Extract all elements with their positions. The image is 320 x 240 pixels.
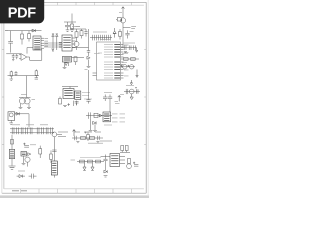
- ground: [12, 60, 14, 61]
- capacitor C29: [51, 127, 53, 134]
- diode D20: [52, 49, 54, 51]
- capacitor C34: [74, 136, 76, 140]
- wire: [70, 28, 86, 30]
- diode D11: [91, 163, 94, 170]
- transistor Q5: [129, 89, 134, 94]
- resistor R24: [121, 146, 124, 153]
- pins U3: [72, 38, 76, 47]
- capacitor C15: [129, 45, 131, 50]
- diode D4: [87, 56, 90, 66]
- border grid ticks bottom: [21, 189, 132, 193]
- page bottom edge (gray strip): [0, 195, 149, 198]
- wire: [121, 58, 139, 60]
- resistor R15: [94, 113, 98, 117]
- label: [71, 159, 76, 161]
- resistor R23: [96, 160, 101, 163]
- label below U8: [104, 124, 112, 126]
- transistor Q8: [52, 132, 62, 137]
- resistor R25: [125, 146, 128, 153]
- capacitor C12: [35, 78, 38, 79]
- label: [93, 31, 107, 33]
- capacitor C30 electrolytic: [23, 143, 29, 147]
- net labels: [112, 114, 125, 122]
- transistor Q9: [127, 164, 132, 169]
- diode D6: [93, 121, 97, 124]
- sheet outer border: [2, 2, 146, 193]
- border grid ticks left: [2, 50, 4, 145]
- capacitor C23: [21, 127, 23, 134]
- diode D9: [17, 175, 25, 178]
- label: [104, 92, 112, 94]
- capacitor C14: [124, 45, 126, 50]
- IC U1 microcontroller: [97, 42, 121, 80]
- label: [100, 140, 112, 142]
- gate U4: [19, 54, 30, 61]
- label: [85, 69, 88, 71]
- capacitor C43: [87, 48, 90, 56]
- capacitor C27: [42, 127, 44, 134]
- node VCC3 arrow: [73, 130, 76, 136]
- pins U10: [120, 157, 126, 164]
- wire: [26, 76, 28, 98]
- capacitor C9: [84, 29, 87, 37]
- label: [122, 62, 127, 64]
- capacitor C37 electrolytic: [133, 162, 138, 166]
- resistor R21: [80, 160, 85, 163]
- capacitor C13: [67, 103, 70, 106]
- wire: [123, 27, 131, 29]
- capacitor C21: [12, 127, 14, 134]
- pin boxes U3 left: [59, 43, 62, 47]
- diode D15: [113, 28, 116, 38]
- label: [94, 53, 100, 55]
- capacitor C2: [125, 30, 129, 38]
- wire: [65, 58, 85, 67]
- label: [130, 31, 134, 33]
- wire: [27, 48, 42, 61]
- diode D18: [52, 34, 55, 52]
- wire: [10, 31, 12, 42]
- ground: [93, 130, 97, 131]
- diode D19: [56, 34, 59, 50]
- transformer T1: [19, 97, 31, 107]
- diode D16: [136, 48, 138, 53]
- capacitor C28: [46, 127, 48, 134]
- capacitor C45: [86, 100, 90, 104]
- label: [76, 25, 81, 27]
- label: [124, 42, 136, 44]
- IC U5: [63, 56, 72, 62]
- resistor R1: [71, 22, 74, 30]
- wire: [53, 137, 55, 161]
- pins U1 right: [121, 45, 124, 79]
- label: [120, 94, 124, 96]
- wire: [11, 159, 13, 166]
- wire: [23, 156, 25, 163]
- IC U8: [103, 112, 111, 122]
- ground: [10, 79, 13, 80]
- label: [12, 124, 48, 126]
- resistor R7: [80, 29, 83, 39]
- capacitor C41: [105, 35, 107, 41]
- border grid ticks top: [21, 2, 132, 5]
- capacitor C24: [26, 127, 28, 134]
- capacitor C39: [97, 35, 99, 41]
- pin labels U1 bank1: [104, 45, 113, 58]
- capacitor C5: [15, 54, 18, 59]
- ground: [27, 107, 31, 108]
- wire mid row: [86, 115, 112, 117]
- resistor R11: [59, 97, 62, 105]
- resistor R16: [11, 140, 14, 145]
- pin labels U1 bank2: [104, 62, 113, 70]
- ground: [104, 176, 108, 177]
- resistor R10: [35, 69, 37, 77]
- wire: [120, 151, 130, 153]
- wire: [122, 7, 124, 18]
- wire: [6, 53, 21, 55]
- capacitor C19: [108, 95, 112, 113]
- pin labels U1 bank3: [104, 73, 113, 78]
- capacitor C36: [103, 155, 107, 169]
- relay K1: [8, 112, 15, 121]
- capacitor C16: [134, 45, 136, 50]
- page background: [0, 0, 149, 198]
- capacitor C25: [30, 127, 32, 134]
- ground: [87, 66, 91, 67]
- label: [18, 170, 25, 172]
- label inside U1: [98, 52, 102, 54]
- diode D3: [65, 62, 68, 65]
- pdf badge: [0, 0, 44, 23]
- wire: [72, 29, 89, 48]
- wire: [91, 119, 95, 130]
- label T1: [21, 94, 27, 96]
- transistor Q4: [129, 65, 133, 69]
- label: [80, 157, 101, 159]
- page right edge sliver: [148, 0, 149, 195]
- ground: [63, 67, 67, 68]
- ground: [70, 30, 74, 31]
- IC U9: [21, 152, 27, 157]
- diode D10: [83, 163, 86, 170]
- ground: [96, 142, 99, 143]
- transistor Q1: [120, 18, 125, 23]
- wire arrow: [136, 70, 138, 78]
- capacitor C35: [97, 136, 99, 140]
- wire: [122, 23, 124, 48]
- diode D14: [130, 94, 133, 100]
- wire caps bus above U1: [90, 37, 112, 39]
- capacitor C40: [101, 35, 103, 41]
- node plus: [120, 65, 122, 67]
- wire: [11, 135, 13, 150]
- sheet inner border: [4, 5, 144, 189]
- label pins: [44, 39, 48, 47]
- transistor Q3: [123, 65, 127, 69]
- diode D13: [104, 168, 107, 173]
- label D1: [131, 27, 136, 29]
- label: [126, 85, 134, 87]
- pins U1 left stubs: [93, 73, 97, 76]
- capacitor C11: [15, 71, 18, 76]
- capacitor C3: [8, 42, 13, 53]
- ground: [63, 105, 67, 106]
- capacitor C44 electrolytic: [135, 88, 138, 94]
- node VBAT: [115, 102, 120, 104]
- wire pin bus U2 to U3: [44, 43, 59, 47]
- label above U1: [100, 39, 110, 41]
- label: [58, 132, 68, 137]
- ground: [66, 30, 70, 31]
- capacitor C42: [109, 35, 111, 41]
- capacitor C46: [75, 102, 79, 106]
- title text in bottom margin: [12, 190, 27, 192]
- wire: [53, 175, 55, 178]
- diode D17: [130, 80, 132, 85]
- ground: [124, 52, 127, 53]
- wire row1 right: [72, 137, 103, 139]
- border grid ticks right: [144, 50, 146, 145]
- label: [30, 144, 36, 146]
- ground: [89, 130, 93, 131]
- wire: [101, 156, 111, 158]
- resistor R20: [90, 137, 95, 140]
- transistor Q2: [74, 42, 79, 51]
- resistor R19: [81, 137, 86, 140]
- wire row2 right: [77, 161, 104, 163]
- wire: [74, 101, 77, 106]
- capacitor C18: [103, 95, 107, 102]
- sheet border right: [145, 2, 147, 193]
- label: [119, 12, 122, 14]
- sheet inner border left: [3, 5, 5, 189]
- label: [72, 26, 80, 28]
- pin boxes U1 bank2: [114, 62, 120, 70]
- node plus: [127, 65, 129, 67]
- resistor R26: [128, 159, 131, 164]
- label: [122, 52, 128, 54]
- capacitor C20: [89, 112, 91, 118]
- IC U2: [33, 36, 41, 50]
- wire: [88, 70, 90, 100]
- resistor R3: [118, 29, 121, 40]
- resistor R17: [39, 146, 42, 158]
- svg-text:PDF: PDF: [8, 5, 37, 21]
- ground: [9, 120, 13, 124]
- node VCC1 top-middle: [64, 14, 76, 23]
- pins U6: [62, 87, 78, 89]
- label: [5, 30, 8, 32]
- pins U2 right: [41, 38, 44, 48]
- IC U3 crystal: [62, 35, 72, 51]
- wire: [87, 132, 89, 135]
- transistor Q7: [25, 157, 30, 167]
- capacitor C4: [12, 54, 15, 59]
- pin boxes U1 bank3: [114, 73, 120, 78]
- resistor R13: [124, 58, 129, 61]
- IC U10: [110, 154, 120, 167]
- IC U7: [75, 91, 81, 100]
- label pins U6: [82, 93, 92, 100]
- resistor R27: [87, 135, 90, 142]
- diode D2: [32, 29, 35, 32]
- resistor R4: [21, 31, 24, 45]
- resistor R9: [10, 71, 12, 79]
- wire caps row right of U1: [121, 47, 137, 49]
- wire: [121, 66, 136, 68]
- wire rail left: [8, 75, 40, 77]
- wire bus under badge: [8, 30, 42, 32]
- IC U6 regulator: [63, 89, 74, 99]
- capacitor C26: [37, 127, 39, 134]
- wire ladder rails: [10, 129, 54, 133]
- capacitor C38: [93, 35, 95, 41]
- node VCC2 arrow: [118, 95, 121, 101]
- net labels right of U1: [124, 45, 129, 76]
- node plus: [85, 131, 87, 133]
- capacitor C33: [52, 150, 56, 152]
- ground: [9, 166, 16, 169]
- capacitor C1: [65, 22, 70, 30]
- resistor R6: [75, 29, 78, 42]
- label: [32, 99, 36, 101]
- label: [88, 142, 103, 144]
- resistor R14: [131, 58, 136, 61]
- resistor R2: [116, 18, 121, 21]
- diode D7: [16, 112, 19, 115]
- ground: [76, 142, 79, 143]
- wire: [15, 114, 29, 128]
- ground: [19, 107, 23, 108]
- node VDD top-right: [122, 7, 125, 9]
- wire: [124, 91, 140, 93]
- resistor R18: [50, 150, 53, 163]
- battery BT1: [51, 161, 57, 175]
- resistor R8: [74, 57, 77, 65]
- resistor R5: [28, 31, 31, 42]
- capacitor C17: [126, 89, 128, 94]
- pin boxes U1 bank1: [114, 45, 120, 58]
- diode D5: [99, 114, 102, 117]
- capacitor C22: [17, 127, 19, 134]
- resistor R22: [88, 160, 93, 163]
- diode D8: [28, 153, 31, 156]
- sheet border left: [1, 2, 3, 193]
- label: [74, 131, 101, 133]
- capacitor C32: [29, 174, 37, 179]
- ground: [22, 163, 26, 164]
- capacitor C31 electrolytic body: [9, 149, 14, 158]
